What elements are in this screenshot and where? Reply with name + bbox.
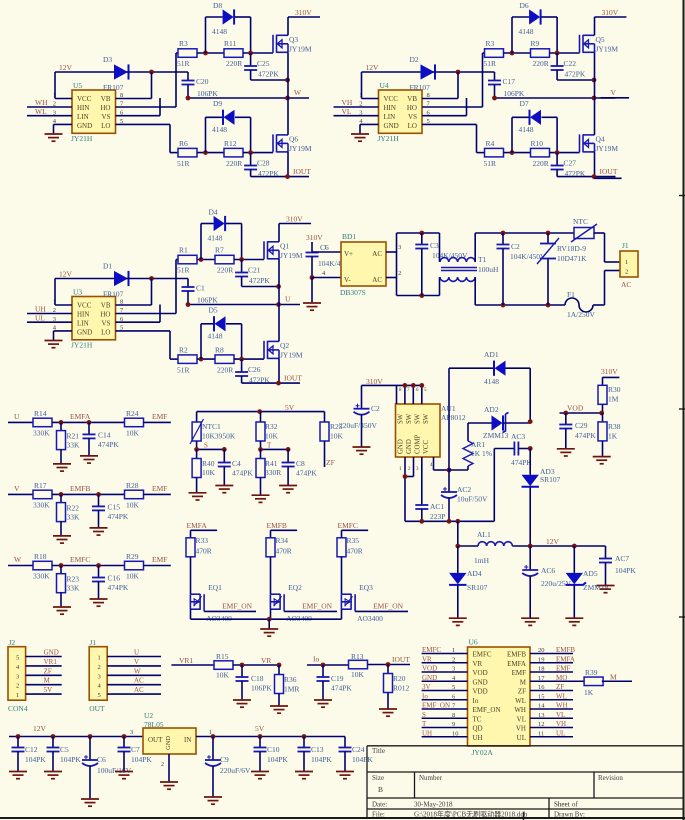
resistor R11 220R (224, 39, 243, 68)
svg-text:HIN: HIN (77, 311, 89, 319)
svg-text:HO: HO (407, 104, 417, 112)
svg-text:GND: GND (473, 678, 488, 686)
svg-text:VL: VL (556, 711, 565, 719)
svg-text:474PK: 474PK (108, 512, 129, 521)
net label 5V J2 pin (26, 686, 62, 694)
wire U2 gnd pin (168, 754, 170, 782)
svg-text:AC: AC (134, 686, 144, 694)
svg-text:R7: R7 (215, 246, 224, 255)
svg-text:VCC: VCC (423, 440, 430, 454)
svg-text:NTC1: NTC1 (202, 422, 221, 431)
capacitor C9 220uF/6V (205, 737, 251, 798)
ground (351, 134, 369, 141)
svg-text:3: 3 (16, 673, 19, 680)
capacitor C2 220uF/450V bulk (339, 385, 380, 447)
svg-text:R17: R17 (34, 481, 47, 490)
svg-text:104PK: 104PK (311, 755, 332, 764)
net label EMFB U6 pin 20 (530, 646, 575, 654)
svg-text:474PK: 474PK (296, 469, 317, 478)
capacitor C26 472PK (235, 359, 278, 384)
svg-text:C3: C3 (430, 241, 439, 250)
wire VB bootstrap (116, 70, 189, 99)
ground C14 (80, 456, 98, 463)
svg-text:D8: D8 (213, 1, 222, 10)
svg-text:104PK: 104PK (25, 755, 46, 764)
svg-text:BD1: BD1 (342, 232, 356, 241)
svg-text:472PK: 472PK (249, 376, 270, 385)
net label U sense (8, 412, 33, 423)
svg-text:EMF_ON: EMF_ON (302, 602, 333, 611)
svg-text:104PK: 104PK (60, 755, 81, 764)
diode AD1 4148 snubber (449, 350, 530, 470)
svg-text:4148: 4148 (484, 377, 499, 386)
svg-text:R38: R38 (608, 422, 621, 431)
net label VOD U6 pin 3 (422, 665, 468, 673)
svg-text:2: 2 (452, 656, 455, 663)
net label EMFA col (187, 521, 218, 538)
ground C19 (314, 700, 332, 707)
net label EMF_ON EQ3 (355, 602, 408, 612)
net label EMF_ON EQ2 (284, 602, 337, 612)
svg-text:AR1: AR1 (471, 440, 485, 449)
capacitor AC3 474PK (494, 432, 532, 521)
svg-text:EMFA: EMFA (507, 660, 526, 668)
svg-text:EMFA: EMFA (556, 655, 575, 663)
svg-text:T: T (422, 720, 427, 728)
net label EMF_ON U6 pin 7 (422, 702, 468, 710)
svg-text:8: 8 (452, 712, 455, 719)
svg-text:472PK: 472PK (565, 169, 586, 178)
svg-text:78L05: 78L05 (144, 720, 164, 729)
wire smps ground rail (405, 519, 494, 524)
capacitor AC7 104PK (599, 546, 636, 586)
svg-text:EMF: EMF (152, 555, 167, 564)
resistor R2 51R (177, 346, 197, 375)
svg-text:VCC: VCC (384, 95, 399, 103)
svg-text:2: 2 (398, 270, 401, 277)
net label VOD (560, 404, 605, 416)
net label VL (334, 107, 379, 116)
svg-text:VR1: VR1 (44, 658, 58, 666)
svg-text:C14: C14 (98, 430, 111, 439)
svg-text:OUT: OUT (89, 704, 105, 713)
svg-text:106PK: 106PK (197, 89, 218, 98)
svg-text:C28: C28 (257, 159, 270, 168)
diode AD4 SR107 (449, 546, 488, 618)
resistor R25 10K (320, 412, 344, 441)
svg-text:IOUT: IOUT (392, 655, 410, 664)
capacitor C24 104PK (339, 737, 374, 772)
net label VL U6 pin 13 (530, 711, 573, 719)
svg-text:13: 13 (538, 712, 545, 719)
net label V J1 pin (107, 658, 161, 666)
svg-text:R28: R28 (126, 481, 139, 490)
svg-text:220R: 220R (217, 266, 233, 275)
svg-text:R33: R33 (196, 536, 209, 545)
wire VCC pin (434, 457, 452, 472)
capacitor C4 474PK (218, 449, 254, 485)
varistor RV18D-9 10D471K (537, 233, 587, 305)
svg-text:9: 9 (452, 721, 455, 728)
svg-text:D6: D6 (520, 1, 529, 10)
power 12V (59, 63, 73, 72)
wire Q bottom drain/source (594, 98, 596, 177)
svg-text:ZMM13: ZMM13 (483, 431, 509, 440)
svg-text:4148: 4148 (212, 125, 227, 134)
wire LO to gate row (116, 124, 179, 152)
svg-text:EMFB: EMFB (507, 651, 526, 659)
wire Q top source (594, 52, 596, 98)
svg-text:UH: UH (35, 305, 46, 314)
IC AU1 AP8012 (396, 404, 466, 457)
diode D3 FR107 (103, 55, 129, 92)
svg-text:EMFC: EMFC (422, 646, 441, 654)
svg-text:C25: C25 (257, 59, 270, 68)
diode D1 FR107 (103, 262, 129, 299)
svg-text:10K3950K: 10K3950K (202, 432, 236, 441)
power 310V (279, 215, 311, 242)
svg-text:LIN: LIN (77, 320, 89, 328)
svg-text:D9: D9 (213, 99, 222, 108)
svg-text:U: U (14, 412, 20, 421)
resistor R13 10K (349, 652, 368, 679)
power 12V (366, 63, 380, 72)
svg-text:18: 18 (538, 666, 545, 673)
wire GND pin (360, 124, 379, 134)
net label WH U6 pin 14 (530, 702, 573, 710)
svg-text:V: V (134, 658, 139, 666)
svg-text:51R: 51R (177, 366, 190, 375)
ground R40 (189, 493, 207, 500)
resistor R4 51R (484, 139, 504, 168)
wire VB bootstrap (422, 70, 495, 99)
net label AC J1 pin (107, 677, 161, 685)
svg-text:C26: C26 (248, 365, 261, 374)
power 5V bottom rail (196, 724, 345, 739)
svg-text:472PK: 472PK (258, 70, 279, 79)
svg-text:EMFC: EMFC (338, 521, 358, 530)
diode D4 4148 (201, 208, 242, 260)
ground C8 (279, 486, 297, 493)
svg-text:GND: GND (384, 122, 399, 130)
svg-text:1M: 1M (608, 395, 619, 404)
capacitor C6 104K/450V (306, 243, 355, 280)
svg-text:C22: C22 (564, 59, 577, 68)
svg-text:LIN: LIN (77, 113, 89, 121)
svg-text:ZF: ZF (556, 683, 564, 691)
resistor R23 33K (57, 566, 81, 608)
resistor R36 1MR (275, 665, 300, 706)
svg-text:S: S (204, 442, 208, 450)
svg-text:W: W (294, 88, 302, 97)
svg-text:474PK: 474PK (575, 431, 596, 440)
svg-text:Q1: Q1 (280, 242, 289, 251)
svg-text:330K: 330K (33, 428, 50, 437)
wire bridge V- pin 4 (312, 270, 341, 278)
wire EQ source rail (191, 617, 342, 629)
svg-text:VR: VR (422, 655, 432, 663)
svg-text:EQ1: EQ1 (208, 583, 222, 592)
net label EMFC col (338, 521, 369, 538)
svg-text:C16: C16 (108, 574, 121, 583)
svg-text:310V: 310V (602, 8, 619, 17)
svg-text:WL: WL (515, 697, 526, 705)
svg-text:AC: AC (372, 276, 382, 284)
net label EMF (144, 412, 171, 423)
svg-text:R21: R21 (67, 431, 80, 440)
svg-text:V: V (14, 484, 20, 493)
wire Q bottom drain/source (278, 305, 280, 384)
svg-text:JY02A: JY02A (472, 748, 494, 757)
svg-text:2: 2 (161, 762, 164, 768)
svg-text:R35: R35 (347, 536, 360, 545)
capacitor C3 104K/450V (415, 233, 468, 296)
svg-text:UL: UL (517, 734, 526, 742)
net label M J2 pin (26, 677, 62, 685)
svg-text:VH: VH (342, 98, 353, 107)
svg-text:D3: D3 (103, 55, 112, 64)
svg-text:GND: GND (77, 329, 92, 337)
svg-text:472PK: 472PK (258, 169, 279, 178)
svg-text:220uF/450V: 220uF/450V (339, 421, 378, 430)
svg-text:10K: 10K (126, 428, 140, 437)
svg-text:Io: Io (313, 655, 319, 664)
svg-text:VCC: VCC (77, 95, 92, 103)
svg-text:12V: 12V (59, 63, 73, 72)
wire gate to Q bottom (243, 150, 273, 155)
svg-text:33K: 33K (67, 584, 81, 593)
svg-text:3: 3 (98, 673, 101, 680)
svg-text:R34: R34 (276, 536, 289, 545)
svg-text:10uF/50V: 10uF/50V (457, 495, 488, 504)
capacitor C13 104PK (298, 737, 333, 772)
svg-text:JY19M: JY19M (280, 351, 303, 360)
svg-text:U: U (285, 295, 291, 304)
svg-text:C21: C21 (248, 266, 261, 275)
svg-text:10K: 10K (265, 432, 279, 441)
svg-text:R14: R14 (34, 409, 47, 418)
node S (194, 441, 227, 452)
svg-text:VDD: VDD (473, 688, 488, 696)
svg-text:474PK: 474PK (108, 583, 129, 592)
wire bridge V+ pin 1 (312, 244, 341, 252)
ground AD5 (565, 618, 583, 625)
svg-text:AL1: AL1 (477, 530, 491, 539)
svg-text:104PK: 104PK (267, 755, 288, 764)
svg-text:106PK: 106PK (251, 684, 272, 693)
wire 12V rail (362, 72, 421, 99)
svg-text:IOUT: IOUT (293, 167, 311, 176)
svg-text:D7: D7 (520, 99, 529, 108)
svg-text:SW: SW (423, 413, 430, 424)
net label GND U6 pin 4 (422, 674, 468, 682)
IC U4 gate driver JY21H (359, 81, 430, 143)
net label ZF (325, 441, 335, 467)
svg-text:R24: R24 (126, 409, 139, 418)
net label M (602, 673, 632, 682)
svg-text:JY19M: JY19M (596, 144, 619, 153)
svg-text:R20: R20 (393, 674, 406, 683)
svg-text:AC: AC (621, 280, 631, 289)
wire Q bottom drain/source (287, 98, 289, 177)
svg-text:QD: QD (473, 725, 483, 733)
diode AD2 ZMM13 (468, 405, 533, 440)
svg-text:220uF/6V: 220uF/6V (220, 766, 251, 775)
net label GND J2 pin (26, 649, 62, 657)
net label EMF_ON EQ1 (204, 602, 256, 612)
net label VH U6 pin 12 (530, 720, 573, 728)
net label WL (27, 107, 72, 116)
svg-text:D1: D1 (103, 262, 112, 271)
svg-text:19: 19 (538, 656, 545, 663)
diode AD5 ZMM18 (566, 546, 609, 618)
svg-text:C27: C27 (564, 159, 577, 168)
wire V line extension (601, 97, 630, 99)
diode D9 4148 (206, 99, 251, 153)
capacitor C10 104PK (254, 737, 289, 772)
svg-text:of: of (572, 801, 579, 809)
svg-text:16: 16 (538, 684, 545, 691)
capacitor C7 104PK (118, 737, 153, 772)
svg-text:VL: VL (342, 107, 352, 116)
svg-text:AC3: AC3 (511, 432, 525, 441)
resistor R15 10K (214, 652, 233, 680)
IC U2 78L05 (130, 711, 212, 768)
resistor R40 10K (192, 449, 215, 492)
svg-text:100uF/16V: 100uF/16V (97, 766, 132, 775)
svg-text:220R: 220R (533, 59, 549, 68)
ground AC6 (521, 618, 539, 625)
resistor R35 470R (337, 536, 363, 557)
svg-text:10D471K: 10D471K (557, 254, 587, 263)
svg-text:AC7: AC7 (615, 554, 629, 563)
svg-text:UL: UL (35, 314, 45, 323)
svg-text:2: 2 (16, 683, 19, 690)
capacitor C29 474PK (559, 413, 596, 449)
svg-text:VB: VB (101, 95, 111, 103)
svg-text:C19: C19 (331, 674, 344, 683)
capacitor C22 472PK (551, 53, 597, 82)
connector J1 AC (620, 241, 638, 289)
wire Q top source (287, 52, 289, 98)
net label EMFA U6 pin 19 (530, 655, 575, 663)
svg-text:C2: C2 (371, 404, 380, 413)
transistor Q2 JY19M low-side (264, 341, 303, 360)
wire gate to Q top (243, 51, 273, 56)
svg-text:DB307S: DB307S (340, 288, 366, 297)
wire phase node V (492, 88, 616, 100)
svg-text:U2: U2 (144, 711, 153, 720)
svg-text:3V: 3V (422, 683, 431, 691)
wire 12V rail (55, 279, 114, 306)
svg-text:SR107: SR107 (467, 583, 488, 592)
svg-text:EMF: EMF (152, 412, 167, 421)
svg-text:D4: D4 (209, 208, 218, 217)
inductor T1 100uH common-mode choke (440, 233, 500, 305)
wire gate to Q bottom (234, 357, 264, 362)
net label EMF (144, 484, 171, 495)
svg-text:C1: C1 (196, 284, 205, 293)
svg-text:220u/25V: 220u/25V (541, 579, 572, 588)
svg-text:EMFA: EMFA (70, 412, 91, 421)
svg-text:JY21H: JY21H (71, 134, 93, 143)
resistor R10 220R (531, 139, 550, 168)
transistor Q4 JY19M low-side (580, 134, 619, 153)
svg-text:CON4: CON4 (8, 704, 28, 713)
svg-text:VS: VS (102, 320, 111, 328)
wire phase node W (186, 88, 309, 100)
ground C29 (557, 449, 575, 456)
capacitor AC2 10uF/50V (441, 470, 488, 521)
svg-text:12V: 12V (59, 270, 73, 279)
svg-text:EMF_ON: EMF_ON (222, 602, 253, 611)
svg-text:R25: R25 (330, 422, 343, 431)
net label T U6 pin 9 (422, 720, 468, 728)
ground (45, 341, 63, 348)
svg-text:VCC: VCC (77, 302, 92, 310)
resistor R29 10K (125, 552, 144, 581)
net label IOUT (276, 374, 302, 386)
wire GND pin (54, 124, 73, 134)
ground U2 (160, 782, 178, 789)
svg-text:VR1: VR1 (179, 656, 193, 665)
svg-text:SW: SW (398, 413, 405, 424)
svg-text:W: W (134, 667, 141, 675)
connector J1 OUT (89, 638, 107, 713)
svg-text:472PK: 472PK (565, 70, 586, 79)
wire GND pin (54, 331, 73, 341)
svg-text:10K: 10K (216, 671, 230, 680)
svg-text:GND: GND (44, 649, 59, 657)
svg-text:R11: R11 (224, 39, 236, 48)
ground R23 (53, 607, 71, 614)
svg-text:U4: U4 (380, 81, 389, 90)
svg-text:UH: UH (422, 729, 432, 737)
svg-text:C2: C2 (511, 242, 520, 251)
svg-text:12V: 12V (546, 537, 560, 546)
svg-text:JY19M: JY19M (596, 45, 619, 54)
svg-text:GND: GND (77, 122, 92, 130)
svg-text:FR107: FR107 (410, 83, 431, 92)
svg-text:EQ3: EQ3 (359, 583, 373, 592)
net label VR1 (171, 656, 214, 665)
wire gate to Q top (550, 51, 580, 56)
svg-text:11: 11 (538, 730, 544, 737)
net label VR (233, 656, 281, 667)
svg-text:FR107: FR107 (103, 83, 124, 92)
ground R21 (53, 464, 71, 471)
wire COMP pin (421, 457, 423, 505)
diode D7 4148 (512, 99, 557, 153)
power 310V divider (601, 367, 619, 386)
IC BD1 DB307S bridge (340, 232, 386, 297)
diode AD3 SR107 (522, 449, 561, 547)
svg-text:1K: 1K (608, 432, 618, 441)
svg-text:ZF: ZF (44, 667, 52, 675)
resistor AR1 1K 1% (449, 423, 492, 470)
diode D6 4148 (512, 1, 557, 53)
svg-text:310V: 310V (295, 8, 312, 17)
transistor EQ3 AO3400 (341, 557, 383, 623)
svg-text:1A/250V: 1A/250V (567, 310, 596, 319)
net label W sense (8, 555, 33, 566)
ground R36 (270, 706, 288, 713)
capacitor C27 472PK (551, 153, 594, 178)
svg-text:4148: 4148 (212, 27, 227, 36)
svg-text:C18: C18 (251, 674, 264, 683)
svg-text:JY21H: JY21H (71, 341, 93, 350)
svg-text:HO: HO (100, 104, 110, 112)
